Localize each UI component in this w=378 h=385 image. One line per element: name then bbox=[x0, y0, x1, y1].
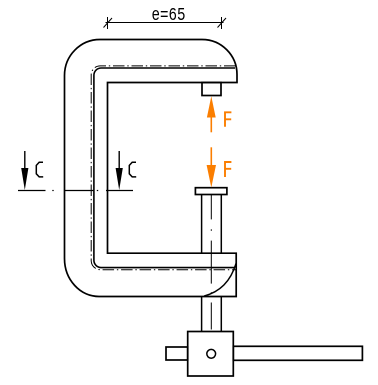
screw swivel pad bbox=[195, 188, 227, 195]
screw shaft lower section bbox=[202, 297, 222, 332]
tommy bar left stub bbox=[166, 347, 188, 360]
label F upper bbox=[225, 112, 231, 127]
label C right bbox=[129, 162, 136, 177]
clamp body outer contour bbox=[65, 40, 238, 297]
screw shaft upper section bbox=[202, 195, 222, 254]
screw centerline bbox=[210, 195, 212, 330]
heel transition arc bbox=[204, 264, 236, 297]
fixed jaw pad bbox=[202, 83, 221, 96]
handle hub bbox=[188, 332, 234, 377]
hub hole bbox=[207, 349, 216, 358]
force arrow up F bbox=[207, 96, 216, 132]
tommy bar right bbox=[233, 346, 362, 360]
section arrow right bbox=[116, 151, 123, 190]
section arrow left bbox=[21, 151, 28, 190]
label C left bbox=[36, 162, 43, 177]
dimension e=65 line bbox=[104, 17, 227, 29]
clamp middle contour bbox=[94, 68, 235, 268]
force arrow down F bbox=[207, 147, 216, 187]
section line C-C bbox=[18, 190, 133, 192]
dash-dot mean-fiber line of frame bbox=[91, 66, 236, 270]
svg-text:e=65: e=65 bbox=[152, 5, 186, 26]
label F lower bbox=[225, 162, 231, 177]
